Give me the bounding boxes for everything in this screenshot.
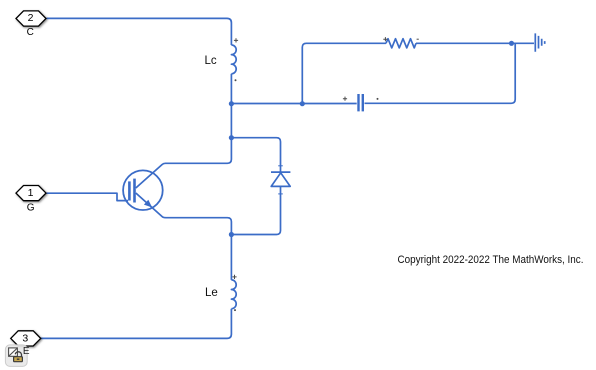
- port 2 (C) hexagon: [16, 11, 46, 26]
- svg-text:3: 3: [22, 333, 28, 345]
- wire: port C to inductor Lc top: [47, 18, 232, 45]
- wire: RC left vertical and top to resistor: [302, 43, 386, 103]
- wire: gate from port G: [47, 193, 129, 200]
- polarity dot of Lc: [235, 79, 237, 81]
- capacitor C plates: [359, 94, 363, 111]
- node A junction dot: [229, 101, 234, 106]
- polarity plus of resistor R: [383, 37, 387, 41]
- badge lock body: [14, 357, 23, 362]
- node RC junction dot: [300, 101, 305, 106]
- wire: Le bottom to port E: [40, 309, 231, 339]
- svg-text:1: 1: [28, 187, 34, 199]
- igbt Q1 circle: [123, 170, 163, 210]
- resistor R zigzag: [386, 39, 416, 48]
- wire: node E down to Le: [230, 235, 232, 280]
- svg-text:E: E: [23, 346, 30, 357]
- port 1 (G) hexagon: [16, 186, 46, 201]
- node B junction dot: [229, 135, 234, 140]
- polarity plus of Le: [232, 275, 236, 279]
- svg-text:Copyright 2022-2022 The MathWo: Copyright 2022-2022 The MathWorks, Inc.: [398, 254, 584, 266]
- diode D cathode bar: [271, 171, 290, 173]
- polarity plus of capacitor C1: [343, 97, 347, 101]
- polarity minus of resistor R: [417, 38, 419, 40]
- diode D upper port tick: [278, 165, 283, 167]
- svg-text:Le: Le: [205, 287, 218, 299]
- badge lock shackle: [15, 352, 21, 357]
- wire: capacitor left lead: [302, 103, 356, 105]
- polarity dot of Le: [234, 309, 236, 311]
- badge lock keyhole: [17, 359, 20, 360]
- diode D lower port tick: [278, 193, 283, 195]
- diode D triangle: [271, 173, 290, 187]
- svg-text:C: C: [27, 27, 34, 38]
- wire: node B to diode top: [231, 138, 280, 172]
- polarity dot of capacitor C1: [377, 98, 379, 100]
- wire: node A to RC branch node: [231, 103, 302, 105]
- wire: Lc bottom to node A: [230, 74, 232, 104]
- svg-text:G: G: [27, 202, 35, 213]
- ground node junction dot: [509, 41, 514, 46]
- badge icon background: [5, 345, 27, 367]
- ground G bars: [535, 33, 544, 51]
- wire: diode bottom to node E: [231, 186, 280, 234]
- inductor Lc coil: [231, 45, 236, 74]
- badge image placeholder square: [9, 348, 18, 356]
- igbt Q1 left gate bar: [128, 181, 131, 200]
- node E junction dot: [229, 232, 234, 237]
- svg-text:2: 2: [28, 12, 34, 24]
- svg-text:Lc: Lc: [205, 55, 217, 67]
- igbt Q1 collector path to node B: [136, 138, 232, 188]
- igbt Q1 emitter path to node E: [136, 193, 232, 235]
- port 3 (E) hexagon: [11, 331, 41, 346]
- wire: right vertical of RC loop: [365, 43, 516, 103]
- wire: node A to node B (main vertical): [230, 104, 232, 138]
- polarity plus of Lc: [234, 38, 238, 42]
- igbt Q1 emitter arrowhead: [144, 200, 152, 208]
- inductor Le coil: [231, 280, 236, 309]
- wire: resistor to ground node: [416, 42, 534, 44]
- igbt Q1 right gate bar: [133, 179, 136, 203]
